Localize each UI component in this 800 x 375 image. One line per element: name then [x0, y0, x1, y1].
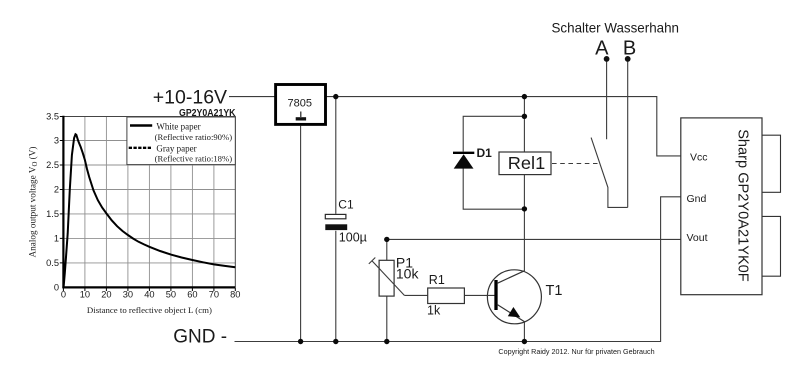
svg-text:50: 50	[166, 290, 176, 300]
svg-text:1.5: 1.5	[46, 209, 59, 219]
svg-text:C1: C1	[338, 198, 354, 212]
svg-text:T1: T1	[546, 283, 563, 299]
svg-text:(Reflective ratio:18%): (Reflective ratio:18%)	[155, 154, 233, 164]
svg-text:1k: 1k	[427, 303, 441, 317]
svg-text:0: 0	[61, 290, 66, 300]
svg-text:30: 30	[123, 290, 133, 300]
svg-text:Vcc: Vcc	[690, 152, 708, 164]
svg-text:R1: R1	[429, 273, 445, 287]
svg-text:70: 70	[209, 290, 219, 300]
svg-text:B: B	[623, 37, 636, 59]
svg-text:3: 3	[54, 136, 59, 146]
svg-text:Schalter Wasserhahn: Schalter Wasserhahn	[552, 20, 680, 36]
svg-text:0: 0	[54, 282, 59, 292]
svg-text:GND -: GND -	[173, 326, 227, 347]
svg-text:Vout: Vout	[687, 232, 708, 244]
svg-text:Gray paper: Gray paper	[156, 143, 196, 153]
svg-text:2.5: 2.5	[46, 160, 59, 170]
svg-text:1: 1	[54, 233, 59, 243]
svg-text:3.5: 3.5	[46, 112, 59, 122]
svg-text:Distance to reflective object: Distance to reflective object L (cm)	[87, 305, 212, 315]
svg-text:80: 80	[230, 290, 240, 300]
svg-text:Sharp GP2Y0A21YK0F: Sharp GP2Y0A21YK0F	[735, 129, 751, 282]
svg-text:Rel1: Rel1	[508, 153, 546, 173]
svg-text:10: 10	[80, 290, 90, 300]
svg-text:100µ: 100µ	[339, 230, 367, 244]
svg-text:GP2Y0A21YK: GP2Y0A21YK	[179, 108, 236, 119]
svg-text:40: 40	[144, 290, 154, 300]
svg-text:20: 20	[101, 290, 111, 300]
svg-text:+10-16V: +10-16V	[153, 87, 227, 109]
svg-text:White paper: White paper	[156, 122, 200, 132]
svg-text:7805: 7805	[288, 97, 312, 109]
svg-text:(Reflective ratio:90%): (Reflective ratio:90%)	[155, 132, 233, 142]
svg-text:D1: D1	[477, 146, 493, 160]
svg-text:Copyright Raidy 2012. Nur für: Copyright Raidy 2012. Nur für privaten G…	[498, 347, 654, 356]
svg-text:10k: 10k	[396, 265, 420, 281]
svg-text:Gnd: Gnd	[687, 193, 707, 205]
svg-text:60: 60	[187, 290, 197, 300]
svg-text:2: 2	[54, 185, 59, 195]
svg-text:0.5: 0.5	[46, 258, 59, 268]
